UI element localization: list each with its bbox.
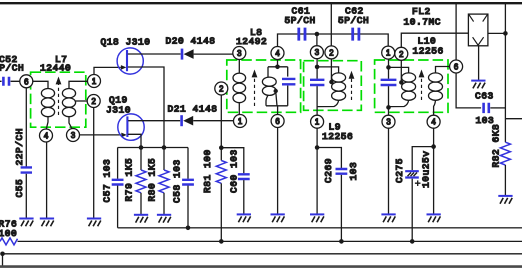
resistor R79 bbox=[140, 148, 142, 171]
capacitor L9 internal bbox=[310, 80, 324, 85]
svg-text:12256: 12256 bbox=[322, 131, 353, 142]
svg-text:3: 3 bbox=[315, 48, 319, 57]
L10 top node wire bbox=[388, 59, 390, 79]
transformer L9 box bbox=[304, 61, 362, 111]
capacitor C275 electrolytic bbox=[405, 171, 419, 177]
svg-text:3: 3 bbox=[71, 131, 75, 140]
diode D20 bbox=[182, 49, 194, 60]
svg-text:22P/CH: 22P/CH bbox=[14, 128, 25, 166]
wire right stub to edge bbox=[505, 118, 522, 120]
wire pin3 L7 to Q19 gate bbox=[80, 134, 122, 136]
wire bottom rail B bbox=[18, 240, 522, 242]
wire right vertical rail bbox=[504, 4, 506, 142]
L7 secondary top wire bbox=[69, 81, 87, 88]
svg-text:C58 103: C58 103 bbox=[172, 159, 183, 203]
ground C55 bbox=[19, 219, 33, 227]
pin 4 L8 bbox=[271, 47, 284, 60]
svg-text:1: 1 bbox=[386, 49, 390, 58]
svg-text:10u25v: 10u25v bbox=[421, 150, 432, 188]
ground pin4 L10 bbox=[427, 214, 441, 222]
ground R79 bbox=[134, 215, 148, 223]
svg-text:R79 1K5: R79 1K5 bbox=[124, 158, 135, 202]
wire pin3 L10 to ground bbox=[388, 128, 390, 214]
transistor Q18 bbox=[117, 48, 143, 74]
svg-text:6: 6 bbox=[275, 117, 279, 126]
capacitor C61 bbox=[299, 28, 305, 41]
svg-text:D21 4148: D21 4148 bbox=[168, 103, 218, 114]
svg-text:5P/CH: 5P/CH bbox=[0, 63, 24, 74]
L9 coil bbox=[332, 73, 346, 100]
svg-text:C55: C55 bbox=[14, 179, 25, 198]
svg-text:12440: 12440 bbox=[40, 63, 71, 74]
svg-text:C57 103: C57 103 bbox=[102, 159, 113, 203]
wire pin4 L10 to ground bbox=[433, 128, 435, 214]
svg-text:4: 4 bbox=[431, 118, 436, 127]
wire D21 to pin1 L8 bbox=[193, 120, 233, 122]
pin 3 L9 bbox=[310, 46, 323, 59]
pin 3 L10 bbox=[382, 115, 395, 128]
capacitor C62 bbox=[353, 28, 359, 41]
ground R82 bbox=[498, 196, 512, 204]
svg-text:4: 4 bbox=[44, 132, 49, 141]
svg-text:C63: C63 bbox=[475, 90, 494, 101]
L10 secondary bottom wire bbox=[434, 100, 436, 115]
transistor Q19 bbox=[118, 114, 144, 140]
L10 primary coil bottom bbox=[389, 100, 409, 106]
capacitor C269 bbox=[336, 169, 348, 174]
L7 secondary bottom wire bbox=[69, 117, 72, 129]
svg-text:C269: C269 bbox=[323, 158, 334, 183]
ground pin3 L10 bbox=[381, 214, 395, 222]
L8 secondary coil bbox=[267, 67, 269, 77]
wire Q18 source bbox=[128, 67, 164, 148]
capacitor C63 bbox=[484, 103, 489, 113]
pin 2 L9 bbox=[325, 46, 338, 59]
Q19 gate arrow bbox=[121, 133, 127, 138]
capacitor C60 bbox=[238, 174, 250, 179]
L9 top node wire bbox=[316, 59, 318, 79]
node Q19 source rail bbox=[118, 147, 188, 149]
svg-text:1: 1 bbox=[238, 117, 242, 126]
svg-text:J310: J310 bbox=[106, 105, 131, 116]
wire Q18 drain bbox=[128, 53, 181, 55]
wire C61 C62 top rail bbox=[278, 34, 389, 47]
capacitor C52 bbox=[3, 77, 9, 86]
ground pin2 L7 bbox=[87, 219, 101, 227]
wire pin6 down to C55 bbox=[25, 88, 27, 167]
pin 4 L7 bbox=[40, 129, 53, 142]
wire D20 to pin3 L8 bbox=[194, 53, 234, 55]
L9 coil link bbox=[317, 67, 339, 73]
L7 tap wire to pin2 bbox=[76, 100, 88, 102]
L7 primary bottom wire bbox=[46, 117, 48, 129]
svg-text:3: 3 bbox=[237, 49, 241, 58]
wire top frame to pin2 L9 bbox=[330, 4, 332, 46]
svg-text:5P/CH: 5P/CH bbox=[338, 15, 369, 26]
wire bottom rail D bbox=[0, 265, 522, 268]
capacitor C58 bbox=[187, 148, 189, 179]
wire pin4 node to C275 bbox=[412, 147, 433, 171]
pin 3 L7 bbox=[67, 129, 80, 142]
svg-text:12492: 12492 bbox=[236, 36, 267, 47]
node C61 to pin3 L9 bbox=[315, 32, 320, 37]
pin 1 L7 bbox=[88, 75, 101, 88]
wire pin4 L7 to ground bbox=[46, 142, 48, 218]
node C58 bottom bbox=[186, 226, 191, 231]
wire FL2 input from pin2 L10 bbox=[401, 33, 468, 47]
svg-text:2: 2 bbox=[219, 85, 223, 94]
wire node to C269 bbox=[317, 148, 341, 169]
svg-text:6: 6 bbox=[454, 63, 458, 72]
wire C55 to ground bbox=[25, 174, 27, 218]
pin 6 L8 bbox=[271, 115, 284, 128]
svg-text:10.7MC: 10.7MC bbox=[404, 16, 442, 27]
L7 primary top wire bbox=[33, 81, 48, 88]
capacitor C57 bbox=[117, 148, 119, 179]
L10 coil link bbox=[389, 67, 409, 72]
ground pin6 L8 bbox=[271, 214, 285, 222]
pin 6 L10 bbox=[450, 60, 463, 73]
pin 1 L9 bbox=[311, 115, 324, 128]
svg-text:2: 2 bbox=[92, 97, 96, 106]
L10 primary coil bbox=[402, 73, 416, 100]
svg-text:1: 1 bbox=[315, 118, 319, 127]
wire R81 node to C60 bbox=[221, 148, 244, 174]
transformer L7 box bbox=[31, 72, 86, 127]
svg-text:R82 6K8: R82 6K8 bbox=[491, 124, 502, 168]
svg-text:D20 4148: D20 4148 bbox=[166, 35, 216, 46]
ground pin4 L7 bbox=[40, 219, 54, 227]
wire Q19 drain bbox=[128, 120, 180, 122]
svg-text:100: 100 bbox=[0, 228, 17, 239]
svg-text:R80 1K5: R80 1K5 bbox=[147, 158, 158, 202]
pin 3 L8 bbox=[233, 47, 246, 60]
L7 secondary coil bbox=[62, 89, 75, 117]
svg-text:R81 100: R81 100 bbox=[202, 149, 213, 193]
pin 1 L8 bbox=[234, 115, 247, 128]
pin 4 L10 bbox=[427, 115, 440, 128]
resistor R81 bbox=[220, 148, 222, 161]
wire pin2 L7 down to ground bbox=[93, 108, 95, 218]
L10 secondary coil bbox=[429, 73, 443, 100]
L7 core arrow bbox=[58, 84, 60, 115]
capacitor C55 bbox=[21, 167, 32, 172]
svg-text:12256: 12256 bbox=[413, 46, 444, 57]
svg-text:Q18 J310: Q18 J310 bbox=[101, 37, 151, 48]
L10 tap from pin2 bbox=[400, 60, 402, 82]
resistor R80 bbox=[163, 148, 165, 171]
L10 core arrow bbox=[421, 77, 423, 100]
svg-text:5P/CH: 5P/CH bbox=[285, 15, 316, 26]
L9 coil bottom wire bbox=[317, 100, 339, 106]
resistor R82 bbox=[500, 142, 510, 165]
wire C52 to pin6 bbox=[0, 80, 20, 82]
L8 core arrow bbox=[254, 77, 256, 106]
L9 tap from pin2 bbox=[330, 59, 332, 82]
wire bottom rail A bbox=[118, 227, 522, 229]
svg-text:6: 6 bbox=[24, 77, 28, 86]
pin 2 L8 bbox=[215, 82, 228, 95]
wire pin6 L8 to ground bbox=[277, 128, 279, 214]
L8 secondary bottom wire bbox=[266, 106, 288, 115]
pin 2 L10 bbox=[395, 47, 408, 60]
ground FL2 bbox=[471, 81, 485, 89]
resistor R76 bbox=[0, 238, 18, 245]
L8 primary coil bbox=[233, 73, 246, 103]
ground R80 bbox=[157, 215, 171, 223]
svg-text:1: 1 bbox=[92, 77, 96, 86]
wire FL2 output bbox=[488, 32, 506, 34]
svg-text:103: 103 bbox=[348, 162, 359, 181]
wire Q19 source bbox=[128, 134, 141, 147]
top frame line bbox=[0, 2, 522, 4]
wire pin1 L7 up to Q18 gate bbox=[94, 67, 121, 74]
L8 primary wire bottom bbox=[238, 103, 240, 115]
transformer L8 box bbox=[227, 60, 301, 112]
L8 secondary tap bbox=[274, 89, 278, 93]
ground pin1 L9 bbox=[310, 214, 324, 222]
wire bottom rail C bbox=[3, 253, 522, 255]
capacitor L8 internal bbox=[287, 67, 289, 77]
svg-text:3: 3 bbox=[386, 118, 390, 127]
L10 secondary coil top wire bbox=[436, 67, 450, 73]
ground C60 bbox=[237, 214, 251, 222]
pin 6 L7 bbox=[20, 75, 33, 88]
L7 primary coil bbox=[41, 89, 54, 117]
Q18 gate arrow bbox=[121, 65, 127, 70]
diode D21 bbox=[182, 115, 194, 126]
L9 core arrow bbox=[351, 78, 353, 100]
svg-text:2: 2 bbox=[399, 50, 403, 59]
wire pin2 L8 down through R81 bbox=[220, 95, 222, 148]
transformer L10 box bbox=[375, 60, 448, 112]
wire rail C to rail D link bbox=[2, 254, 4, 267]
svg-text:4: 4 bbox=[275, 49, 280, 58]
C275 plus sign bbox=[415, 180, 421, 186]
svg-text:2: 2 bbox=[329, 48, 333, 57]
L8 secondary top node bbox=[268, 60, 288, 67]
filter FL2 bbox=[468, 14, 488, 46]
capacitor L10 internal bbox=[381, 80, 397, 85]
svg-text:C275: C275 bbox=[394, 158, 405, 183]
pin 2 L7 bbox=[87, 95, 100, 108]
wire pin6 L10 down through C63 bbox=[456, 4, 481, 108]
svg-text:C60 103: C60 103 bbox=[228, 149, 239, 193]
pin 1 L10 bbox=[382, 46, 395, 59]
L8 primary wire top bbox=[238, 60, 240, 74]
wire FL2 stem to ground bbox=[478, 46, 480, 80]
wire pin1 L9 to ground bbox=[316, 128, 318, 214]
